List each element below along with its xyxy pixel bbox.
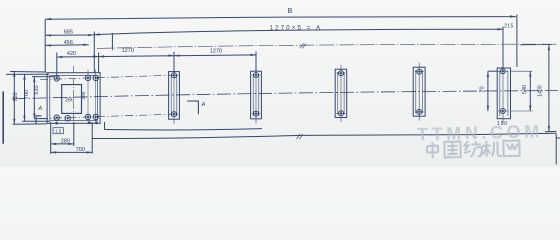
extension line x=98.6 bbox=[98, 53, 100, 73]
extension line x=503 down to right bracket bbox=[502, 27, 504, 69]
bottom hole-row centerline (flange to bracket1) bbox=[40, 114, 172, 118]
extension line x=174 to bracket 1 bbox=[173, 52, 175, 72]
svg-text:700: 700 bbox=[76, 147, 85, 153]
svg-text:TTMN.COM: TTMN.COM bbox=[417, 121, 543, 144]
char ji bbox=[482, 140, 502, 156]
flange vertical centerline bbox=[73, 66, 75, 126]
dimension line B (top overall) bbox=[45, 17, 516, 20]
right dim 540 bbox=[529, 71, 531, 111]
dimension line 456 bbox=[45, 44, 88, 47]
extension line x=112.4 bbox=[111, 33, 113, 50]
svg-text:1270×5 = A: 1270×5 = A bbox=[270, 26, 323, 32]
dimension 700 bbox=[51, 151, 92, 153]
break marks on bottom lines bbox=[297, 134, 303, 140]
svg-text:1.5: 1.5 bbox=[55, 129, 62, 134]
right dim 1400 bbox=[548, 45, 550, 132]
right 1400 tick and bottom right corner vertical bbox=[545, 131, 557, 164]
svg-text:260: 260 bbox=[65, 97, 74, 103]
left vertical dimension 720 bbox=[13, 72, 15, 125]
svg-text:610: 610 bbox=[34, 85, 40, 94]
char guo bbox=[444, 142, 460, 158]
right dim 70 bbox=[487, 71, 489, 111]
flange bottom row holes bbox=[54, 114, 98, 124]
svg-text:1400: 1400 bbox=[538, 85, 544, 97]
flange top row holes bbox=[54, 75, 98, 81]
dimension line 685 bbox=[45, 34, 94, 36]
char zhong bbox=[427, 142, 438, 159]
dimension row 420 / 1270 / 1270 bbox=[57, 55, 256, 57]
svg-text:70: 70 bbox=[479, 86, 485, 92]
left vertical dimension 700 bbox=[24, 74, 26, 121]
bracket 1 bbox=[169, 67, 180, 124]
svg-text:685: 685 bbox=[64, 30, 73, 36]
long bottom line 1 bbox=[105, 129, 263, 130]
bracket 3 bbox=[335, 65, 347, 122]
flange thin hole column lines bbox=[88, 70, 96, 124]
extension line right end of B / beam end bbox=[516, 15, 518, 68]
svg-text:215: 215 bbox=[504, 24, 514, 30]
svg-text:B: B bbox=[288, 8, 293, 15]
watermark chinese characters (drawn strokes) bbox=[427, 140, 520, 158]
svg-text:540: 540 bbox=[522, 85, 528, 94]
long bottom line 2 bbox=[92, 133, 556, 138]
extension line x=256 to bracket 2 bbox=[255, 52, 257, 72]
top hole-row centerline (flange to bracket1) bbox=[40, 75, 170, 79]
watermark TTMN.COM bbox=[417, 121, 543, 144]
extension line x=94 to flange bbox=[93, 32, 95, 74]
bracket 2 bbox=[251, 67, 262, 124]
svg-text:420: 420 bbox=[67, 51, 76, 57]
char fang bbox=[464, 141, 482, 157]
main horizontal centerline of beam bbox=[12, 91, 558, 99]
bracket 5 (right end) bbox=[497, 63, 510, 124]
section mark A mid-beam bbox=[187, 101, 198, 114]
bracket 4 bbox=[413, 63, 425, 121]
svg-text:300: 300 bbox=[81, 91, 87, 99]
vertical connecting line at x=104.5 bbox=[104, 122, 106, 130]
bottom-left extension lines bbox=[51, 122, 92, 154]
flange pocket square bbox=[62, 85, 82, 114]
left edge scan artifact bbox=[2, 92, 4, 144]
extension line left end of B bbox=[44, 19, 46, 72]
svg-text:A: A bbox=[201, 102, 206, 108]
svg-text:456: 456 bbox=[64, 40, 73, 46]
dimension 280 bbox=[51, 143, 74, 145]
extension line x=56.8 bbox=[56, 53, 58, 79]
bottom-left: small weld box bbox=[53, 128, 64, 134]
flange inner border bbox=[50, 75, 98, 120]
svg-text:A: A bbox=[37, 106, 42, 112]
svg-text:1270: 1270 bbox=[210, 48, 222, 54]
svg-text:720: 720 bbox=[13, 92, 19, 101]
break mark on phantom line bbox=[300, 43, 306, 48]
svg-text:700: 700 bbox=[24, 90, 30, 99]
svg-text:280: 280 bbox=[61, 138, 70, 144]
long phantom line (top, dash-dot with break) bbox=[97, 44, 558, 48]
section mark A at flange bbox=[36, 116, 42, 124]
flange outer square bbox=[47, 73, 100, 124]
left vertical dimension 610 bbox=[33, 77, 35, 119]
char wang bbox=[503, 141, 519, 157]
svg-text:1270: 1270 bbox=[122, 48, 134, 54]
dimension line 1270x5=A bbox=[94, 29, 503, 34]
